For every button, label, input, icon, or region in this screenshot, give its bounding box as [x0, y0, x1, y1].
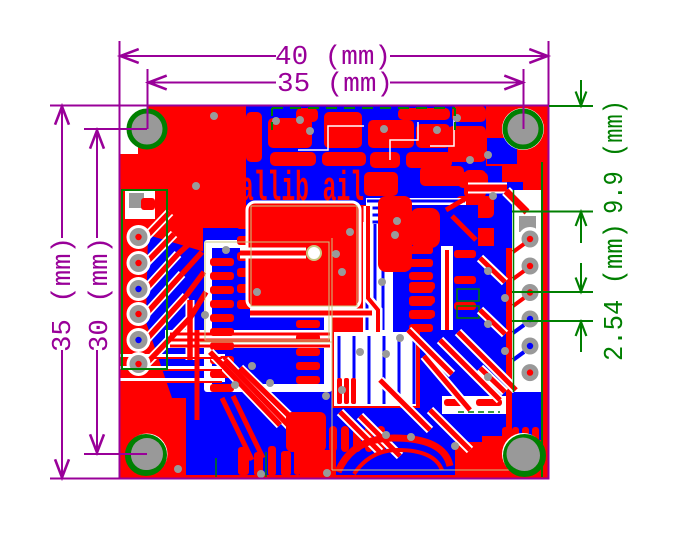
svg-text:35 (mm): 35 (mm): [49, 237, 79, 352]
svg-text:9.9 (mm): 9.9 (mm): [601, 100, 631, 214]
svg-text:2.54 (mm): 2.54 (mm): [601, 223, 631, 361]
svg-text:35 (mm): 35 (mm): [277, 70, 393, 100]
svg-text:30 (mm): 30 (mm): [86, 237, 116, 352]
svg-text:40 (mm): 40 (mm): [275, 43, 391, 73]
